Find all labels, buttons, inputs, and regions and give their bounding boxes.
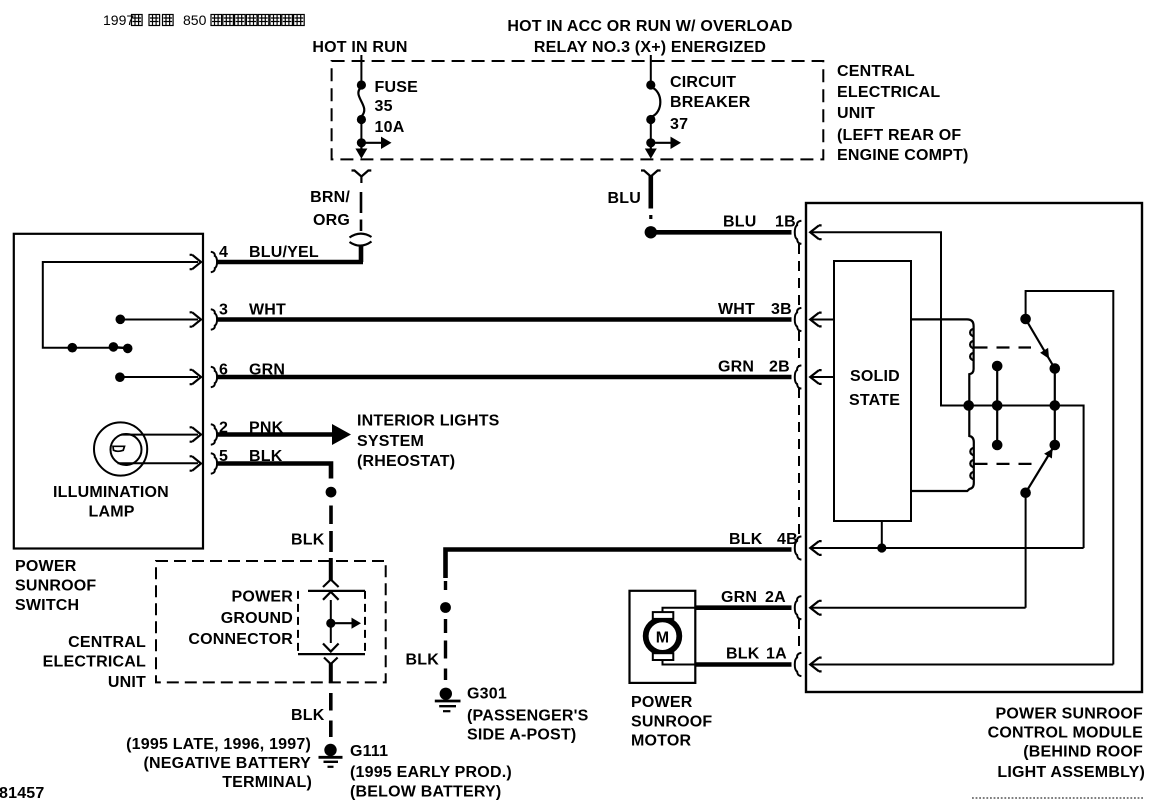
wire BLK pin5 bbox=[217, 464, 331, 479]
svg-text:SYSTEM: SYSTEM bbox=[357, 433, 424, 450]
svg-text:10A: 10A bbox=[375, 119, 405, 136]
wire BLU vertical bbox=[648, 176, 653, 209]
svg-text:BRN/: BRN/ bbox=[310, 189, 350, 206]
svg-text:TERMINAL): TERMINAL) bbox=[222, 774, 312, 791]
wire BLK dashed to G301 bbox=[444, 581, 447, 590]
svg-text:GRN: GRN bbox=[721, 589, 757, 606]
svg-text:LAMP: LAMP bbox=[89, 504, 135, 521]
connector 3B bbox=[795, 308, 802, 331]
relay coil K2 (lower) bbox=[911, 409, 974, 491]
fuse output junction with branch arrow bbox=[355, 137, 391, 159]
svg-text:(1995 EARLY PROD.): (1995 EARLY PROD.) bbox=[350, 764, 512, 781]
illumination lamp bbox=[94, 422, 147, 475]
svg-text:(1995 LATE, 1996, 1997): (1995 LATE, 1996, 1997) bbox=[126, 736, 311, 753]
fuse F35 10A bbox=[357, 80, 366, 142]
internal wire from 2A bbox=[810, 607, 1026, 609]
svg-text:3B: 3B bbox=[771, 301, 792, 318]
svg-text:HOT IN RUN: HOT IN RUN bbox=[312, 39, 407, 56]
svg-text:CENTRAL: CENTRAL bbox=[837, 63, 915, 80]
wire BLU/YEL pin4 to inline connector bbox=[217, 260, 363, 265]
svg-text:MOTOR: MOTOR bbox=[631, 733, 692, 750]
svg-text:BLU: BLU bbox=[608, 190, 641, 207]
connector symbol pin 2 bbox=[211, 424, 217, 444]
internal wire from 2B bbox=[810, 376, 834, 378]
svg-text:2A: 2A bbox=[765, 589, 786, 606]
title 1997 Volvo 850 sunroof circuit bbox=[103, 12, 304, 28]
terminal arrow pin 2 bbox=[190, 427, 201, 441]
svg-text:SUNROOF: SUNROOF bbox=[15, 578, 96, 595]
svg-text:(LEFT REAR OF: (LEFT REAR OF bbox=[837, 127, 961, 144]
connector A dashed strip bbox=[798, 619, 800, 653]
svg-text:SOLID: SOLID bbox=[850, 368, 900, 385]
svg-text:81457: 81457 bbox=[0, 785, 45, 802]
svg-text:INTERIOR LIGHTS: INTERIOR LIGHTS bbox=[357, 413, 500, 430]
svg-text:BLU/YEL: BLU/YEL bbox=[249, 244, 319, 261]
svg-text:37: 37 bbox=[670, 116, 688, 133]
connector symbol below fuse bbox=[352, 171, 372, 184]
wire BRN/ORG dashed bbox=[360, 192, 363, 231]
svg-text:850: 850 bbox=[183, 12, 207, 28]
connector 2B bbox=[795, 365, 802, 388]
splice node on G301 wire bbox=[440, 602, 451, 613]
internal wire from 1B bbox=[810, 232, 1055, 405]
wire common to 4B line bbox=[1055, 406, 1084, 549]
svg-text:ILLUMINATION: ILLUMINATION bbox=[53, 484, 169, 501]
wire GRN 2A bbox=[695, 605, 791, 610]
lamp wire to pin5 bbox=[118, 462, 199, 464]
svg-text:CIRCUIT: CIRCUIT bbox=[670, 74, 736, 91]
wire WHT pin3 to module 3B bbox=[217, 317, 792, 322]
svg-text:UNIT: UNIT bbox=[108, 674, 146, 691]
connector symbol pin 4 bbox=[211, 252, 217, 272]
switch internal wire pin4 feed bbox=[43, 262, 198, 348]
connector symbol pin 3 bbox=[211, 309, 217, 329]
wire PNK pin2 to interior lights bbox=[217, 432, 333, 437]
wire from HOT IN RUN into fuse bbox=[360, 55, 362, 84]
svg-text:POWER: POWER bbox=[631, 694, 693, 711]
motor terminal bottom bbox=[653, 653, 674, 660]
svg-text:CONNECTOR: CONNECTOR bbox=[188, 631, 293, 648]
ground G301 bbox=[435, 688, 461, 712]
motor top lead bbox=[663, 608, 696, 612]
power sunroof motor box bbox=[630, 591, 696, 683]
svg-text:3: 3 bbox=[219, 302, 228, 319]
svg-text:FUSE: FUSE bbox=[375, 79, 419, 96]
svg-text:G111: G111 bbox=[350, 743, 388, 760]
page edge dotted line bbox=[972, 797, 1143, 799]
svg-text:BLK: BLK bbox=[729, 531, 763, 548]
terminal arrow pin 6 bbox=[190, 370, 201, 384]
power sunroof control module box bbox=[806, 203, 1142, 692]
svg-text:SUNROOF: SUNROOF bbox=[631, 714, 712, 731]
svg-text:BREAKER: BREAKER bbox=[670, 94, 751, 111]
motor bottom lead bbox=[663, 660, 696, 665]
svg-text:WHT: WHT bbox=[249, 302, 286, 319]
wire S2 to 2A line bbox=[1025, 493, 1027, 608]
connector 2A bbox=[795, 596, 802, 619]
svg-text:STATE: STATE bbox=[849, 392, 900, 409]
svg-text:M: M bbox=[656, 630, 670, 647]
svg-text:HOT IN ACC OR RUN W/ OVERLOAD: HOT IN ACC OR RUN W/ OVERLOAD bbox=[507, 18, 792, 35]
svg-text:(BELOW BATTERY): (BELOW BATTERY) bbox=[350, 784, 501, 801]
svg-text:SIDE A-POST): SIDE A-POST) bbox=[467, 727, 576, 744]
svg-text:CONTROL MODULE: CONTROL MODULE bbox=[988, 725, 1144, 742]
wire S1 top feed bbox=[1026, 291, 1114, 665]
connector 4B bbox=[795, 536, 802, 559]
wire BLK into CEU box bbox=[329, 558, 333, 580]
svg-text:(RHEOSTAT): (RHEOSTAT) bbox=[357, 453, 455, 470]
svg-text:BLK: BLK bbox=[291, 707, 325, 724]
switch internal wire to pin3 bbox=[116, 315, 126, 325]
lamp wire to pin2 bbox=[121, 434, 198, 436]
wire BLK 4B bbox=[446, 550, 792, 579]
svg-text:4B: 4B bbox=[777, 531, 798, 548]
splice node BLU bbox=[645, 226, 657, 238]
wire BLK 1A bbox=[695, 662, 791, 667]
svg-text:1B: 1B bbox=[775, 214, 796, 231]
circuit breaker 37 bbox=[646, 80, 660, 142]
svg-text:POWER: POWER bbox=[15, 558, 77, 575]
solid state box U1 bbox=[834, 261, 911, 521]
ground connector internals bbox=[323, 592, 339, 600]
terminal arrow pin 5 bbox=[190, 456, 201, 470]
svg-text:ENGINE COMPT): ENGINE COMPT) bbox=[837, 147, 969, 164]
internal wire from 3B bbox=[810, 319, 834, 321]
svg-text:GROUND: GROUND bbox=[221, 610, 293, 627]
connector symbol pin 5 bbox=[211, 453, 217, 473]
svg-text:RELAY NO.3 (X+) ENERGIZED: RELAY NO.3 (X+) ENERGIZED bbox=[534, 39, 766, 56]
svg-text:WHT: WHT bbox=[718, 301, 755, 318]
svg-text:LIGHT ASSEMBLY): LIGHT ASSEMBLY) bbox=[997, 764, 1145, 781]
switch contact S2 (lower) bbox=[1050, 440, 1061, 451]
connector B dashed strip bbox=[798, 244, 800, 538]
svg-text:CENTRAL: CENTRAL bbox=[68, 634, 146, 651]
connector 1B bbox=[795, 221, 802, 244]
power sunroof switch box bbox=[14, 234, 203, 549]
internal wire from 4B bbox=[810, 547, 1084, 549]
svg-text:ELECTRICAL: ELECTRICAL bbox=[837, 84, 940, 101]
connector symbol below ground connector box bbox=[324, 658, 338, 665]
motor terminal top bbox=[653, 612, 674, 619]
terminal arrow pin 4 bbox=[190, 255, 201, 269]
svg-text:1997: 1997 bbox=[103, 12, 134, 28]
wire BLK dashed to G111 bbox=[329, 693, 333, 737]
svg-text:(PASSENGER'S: (PASSENGER'S bbox=[467, 708, 589, 725]
label CENTRAL ELECTRICAL UNIT (LEFT REAR OF ENGINE COMPT) bbox=[837, 63, 969, 164]
connector 1A bbox=[795, 653, 802, 676]
svg-text:G301: G301 bbox=[467, 686, 507, 703]
switch contact S1 (upper) bbox=[1020, 314, 1031, 325]
splice node BLK bbox=[326, 487, 337, 498]
svg-text:POWER SUNROOF: POWER SUNROOF bbox=[996, 706, 1144, 723]
wire from RELAY feed into circuit breaker bbox=[650, 55, 652, 84]
wire GRN pin6 to module 2B bbox=[217, 375, 792, 380]
node junction A bbox=[68, 343, 78, 353]
central electrical unit dashed box (top) bbox=[332, 61, 824, 159]
svg-text:GRN: GRN bbox=[718, 359, 754, 376]
switch contact pair bbox=[113, 347, 127, 349]
svg-text:(NEGATIVE BATTERY: (NEGATIVE BATTERY bbox=[143, 755, 311, 772]
svg-text:4: 4 bbox=[219, 244, 228, 261]
wire BLU/YEL riser bbox=[359, 247, 364, 263]
ground G111 bbox=[319, 744, 343, 767]
terminal arrow pin 3 bbox=[190, 312, 201, 326]
motor M1 armature ring bbox=[646, 619, 680, 653]
svg-text:ELECTRICAL: ELECTRICAL bbox=[43, 654, 146, 671]
svg-text:BLK: BLK bbox=[726, 646, 760, 663]
internal wire from 1A bbox=[810, 664, 1113, 666]
switch internal wire to pin6 bbox=[115, 372, 125, 382]
svg-text:BLK: BLK bbox=[406, 652, 440, 669]
connector symbol pin 6 bbox=[211, 367, 217, 387]
breaker output junction with branch arrow bbox=[645, 137, 681, 159]
wire BLU 1B bbox=[655, 230, 792, 235]
svg-text:BLU: BLU bbox=[723, 214, 756, 231]
wire BLK dashed down bbox=[329, 506, 333, 553]
svg-text:BLK: BLK bbox=[291, 532, 325, 549]
svg-text:UNIT: UNIT bbox=[837, 105, 875, 122]
svg-text:35: 35 bbox=[375, 98, 393, 115]
power ground connector box bbox=[298, 591, 365, 654]
svg-text:1A: 1A bbox=[766, 646, 787, 663]
connector symbol below breaker bbox=[641, 171, 661, 184]
middle tie bar bbox=[996, 366, 998, 445]
central electrical unit dashed box (bottom) bbox=[156, 561, 386, 682]
inline connector on BRN/ORG wire bbox=[350, 234, 372, 246]
dashed actuator link upper bbox=[975, 346, 1032, 348]
dashed actuator link lower bbox=[975, 463, 1034, 465]
svg-text:2B: 2B bbox=[769, 359, 790, 376]
svg-text:(BEHIND ROOF: (BEHIND ROOF bbox=[1023, 744, 1143, 761]
svg-text:POWER: POWER bbox=[232, 589, 294, 606]
solid state ground pin bbox=[881, 521, 883, 548]
connector chevron at ground connector top bbox=[323, 580, 339, 588]
svg-text:ORG: ORG bbox=[313, 212, 350, 229]
relay coil K1 (upper) bbox=[911, 319, 974, 401]
common bar between contacts bbox=[1054, 369, 1056, 446]
node coil1 bottom bbox=[963, 400, 974, 411]
svg-text:SWITCH: SWITCH bbox=[15, 597, 79, 614]
